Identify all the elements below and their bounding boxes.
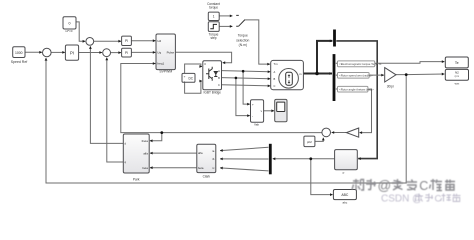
wire constant torque to switch: [219, 15, 232, 17]
node speed feedback junction: [405, 73, 408, 76]
svg-text:abc: abc: [342, 201, 347, 205]
controller PI speed: [65, 45, 78, 60]
bridge IGBT Bridge: [203, 61, 222, 95]
svg-text:-: -: [252, 114, 253, 118]
svg-text:0: 0: [69, 22, 71, 26]
wire PI d to SVPWM Ud: [132, 40, 156, 42]
svg-text:<Rotor angle thetam (rad)>: <Rotor angle thetam (rad)>: [339, 88, 374, 92]
svg-text:Clark: Clark: [203, 174, 211, 178]
svg-text:C: C: [435, 194, 442, 205]
subsystem SVPWM: [156, 34, 175, 73]
gain 30/pi rad/s to rpm: [385, 68, 396, 89]
wire demux line b to Clark: [220, 158, 268, 160]
svg-text:PI: PI: [70, 50, 74, 55]
demux currents: [269, 144, 272, 175]
wire speed signal to gain: [336, 74, 384, 76]
sum S2 d current error: [86, 38, 94, 46]
svg-text:<Rotor speed wm (rad/s)>: <Rotor speed wm (rad/s)>: [339, 74, 373, 78]
wire sum2 to PI current d: [94, 40, 121, 42]
sum S1 speed error: [43, 48, 52, 57]
svg-text:1000: 1000: [15, 51, 23, 55]
label tag rotor speed: [338, 73, 373, 79]
wire demux line c to Clark: [220, 168, 268, 171]
machine PMSM motor: [271, 60, 304, 89]
node currents junction: [309, 157, 312, 160]
wire speed PI to sum3: [79, 52, 102, 54]
svg-text:IGBT Bridge: IGBT Bridge: [203, 90, 221, 94]
wire torque signal to Te display: [336, 62, 445, 64]
scope Vab: [275, 99, 287, 121]
node tap A: [242, 70, 245, 73]
constant id reference 0: [63, 17, 76, 34]
display Te: [445, 57, 468, 68]
svg-text:pi/2: pi/2: [307, 140, 312, 144]
wire switch to motor Tm: [245, 20, 270, 64]
transform Clark: [197, 144, 216, 178]
svg-text:N2: N2: [455, 71, 459, 75]
wire torque step to switch: [219, 25, 232, 27]
controller PI current q: [122, 48, 132, 57]
watermark csdn: [381, 194, 461, 205]
manual switch torque selection: [236, 15, 249, 47]
wire phase A IGBT to motor: [222, 71, 271, 72]
svg-text:freq1: freq1: [157, 62, 164, 66]
svg-text:alfa: alfa: [198, 151, 203, 155]
wire currents block to demux: [273, 158, 335, 160]
wire Speed Ref to sum1: [25, 51, 42, 53]
svg-text:alfa: alfa: [143, 151, 148, 155]
svg-text:B: B: [218, 76, 220, 80]
svg-text:Vab: Vab: [254, 122, 259, 126]
svg-text:ABC: ABC: [341, 193, 349, 197]
svg-text:(N.m): (N.m): [239, 43, 247, 47]
wire Vab to scope: [264, 110, 274, 112]
wire currents branch to ABC scope: [311, 159, 333, 195]
sum S4 theta offset: [322, 128, 331, 137]
wire Park q output to sum3: [107, 58, 123, 162]
wire Clark beta to Park: [150, 167, 196, 169]
svg-text:SVPWM: SVPWM: [159, 69, 172, 73]
svg-text:PI: PI: [125, 51, 128, 55]
wire theta branch to Park theta input: [150, 133, 162, 141]
wire pi/2 constant to sum4: [315, 138, 323, 142]
subsystem currents selector p: [335, 150, 358, 175]
svg-text:Torque: Torque: [238, 34, 248, 38]
svg-text:C: C: [419, 179, 428, 193]
wire phase C IGBT to motor: [222, 85, 271, 86]
sum S3 q current error: [103, 49, 111, 57]
svg-text:PI: PI: [125, 39, 128, 43]
wire SVPWM Pulse to IGBT gate: [176, 52, 232, 63]
wire m bus branch up to bus selector 2: [317, 41, 332, 74]
node theta junction: [160, 131, 163, 134]
wire theta feedback main to SVPWM freq1: [121, 64, 322, 133]
wire angle signal to pole gain: [336, 89, 372, 133]
label tag rotor angle: [338, 86, 375, 92]
wire phase B IGBT to motor: [222, 78, 271, 79]
svg-text:A: A: [218, 69, 220, 73]
svg-text:Pulse: Pulse: [167, 50, 175, 54]
transform Park: [123, 134, 149, 181]
constant torque block: [207, 2, 220, 21]
wire DC minus to IGBT bridge: [185, 81, 202, 93]
wire Clark alfa to Park: [150, 152, 196, 154]
svg-text:A: A: [274, 70, 276, 74]
svg-text:<Electromagnetic torque Te (N.: <Electromagnetic torque Te (N.m: [339, 62, 382, 66]
svg-text:step: step: [210, 36, 216, 40]
svg-text:rpm: rpm: [455, 74, 459, 78]
svg-text:C: C: [274, 84, 276, 88]
source DC voltage: [182, 73, 195, 83]
svg-text:beta: beta: [142, 166, 148, 170]
svg-text:selection: selection: [236, 38, 249, 42]
wire sum1 to speed PI: [51, 51, 65, 53]
node tap B: [235, 77, 238, 80]
wire speed feedback to sum1: [46, 58, 406, 183]
gain pole pairs (left pointing): [346, 128, 358, 137]
svg-text:Tm: Tm: [274, 62, 279, 66]
svg-text:30/pi: 30/pi: [387, 84, 394, 88]
bus selector 1: [333, 54, 336, 101]
scope ABC currents: [333, 190, 356, 205]
wire motor m bus to bus selector 1: [304, 73, 333, 75]
svg-text:id*=0: id*=0: [66, 29, 73, 33]
wire tap phase A to Vab plus: [243, 71, 250, 104]
svg-text:1: 1: [213, 15, 215, 19]
svg-text:Uq: Uq: [157, 50, 161, 54]
svg-text:-: -: [184, 79, 185, 83]
constant pi/2: [304, 136, 315, 147]
wire pole gain to sum4: [332, 132, 347, 134]
svg-text:Te: Te: [455, 61, 459, 65]
step Torque step: [208, 22, 219, 41]
label tag electromagnetic torque: [338, 61, 382, 67]
wire selector2 output down to currents block: [336, 41, 377, 159]
wire sum3 to PI current q: [111, 52, 121, 54]
svg-text:theta: theta: [142, 139, 149, 143]
measurement Vab: [251, 100, 264, 127]
svg-text:Park: Park: [133, 177, 140, 181]
svg-text:C: C: [218, 83, 220, 87]
bus selector 2: [333, 30, 336, 47]
wire Park d output to sum2: [90, 46, 123, 143]
wire demux line a to Clark: [220, 147, 268, 150]
constant Speed Ref 1000: [11, 47, 28, 64]
node m bus junction: [315, 72, 319, 76]
controller PI current d: [122, 36, 132, 45]
svg-text:Speed Ref: Speed Ref: [11, 60, 28, 64]
svg-text:B: B: [274, 77, 276, 81]
watermark zhihu: [352, 178, 455, 193]
wire tap phase B to Vab minus: [236, 78, 250, 116]
svg-text:+: +: [184, 74, 186, 78]
svg-text:DC: DC: [188, 77, 193, 81]
wire id ref constant to sum2: [76, 22, 85, 41]
wire DC plus to IGBT bridge: [185, 64, 202, 73]
svg-text:+: +: [252, 102, 254, 106]
wire gain to wm display: [396, 73, 444, 76]
svg-text:torque: torque: [209, 6, 218, 10]
svg-text:Ud: Ud: [157, 39, 161, 43]
display wm rpm: [445, 69, 468, 85]
svg-text:beta: beta: [198, 166, 204, 170]
svg-text:wm: wm: [455, 82, 460, 86]
svg-text:@: @: [378, 178, 392, 193]
wire PI q to SVPWM Uq: [132, 51, 156, 53]
